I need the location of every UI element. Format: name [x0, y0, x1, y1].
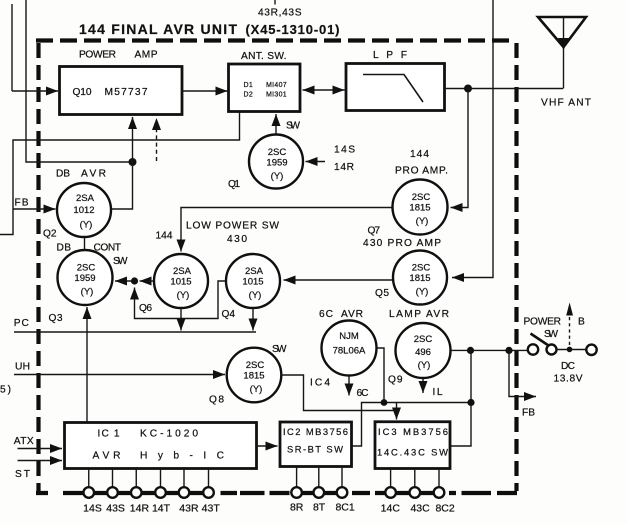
wire stub with arrow into Q1 right [306, 161, 326, 163]
svg-text:FB: FB [15, 198, 29, 209]
wire dashed B arrow [569, 315, 571, 345]
svg-text:Q8: Q8 [209, 395, 224, 406]
wire IC1 to IC2 arrow [257, 445, 278, 447]
transistor Q2 2SA1012 [57, 183, 111, 237]
wire pin stubs IC1 [89, 469, 209, 488]
svg-text:(X45-1310-01): (X45-1310-01) [246, 22, 340, 37]
wire FB arrow into Q2 [13, 208, 56, 210]
svg-text:(Y): (Y) [177, 290, 190, 301]
power amp box Q10 [60, 67, 183, 115]
wire A: input to power amp from top left [11, 4, 13, 91]
svg-text:LAMP AVR: LAMP AVR [389, 309, 449, 320]
svg-text:IC3 MB3756: IC3 MB3756 [378, 426, 448, 437]
hybrid IC1 KC-1020 box [65, 423, 257, 469]
wire PC line [14, 331, 256, 333]
svg-text:43C: 43C [410, 503, 430, 515]
svg-text:AMP: AMP [135, 50, 158, 61]
svg-text:SW: SW [544, 329, 558, 340]
switch IC2 MB3756 box [280, 422, 352, 467]
svg-text:2SC: 2SC [414, 334, 433, 345]
svg-text:1815: 1815 [243, 371, 264, 382]
svg-text:43T: 43T [202, 503, 221, 515]
wire arrow from Q6 into junction [140, 280, 155, 282]
node junction dot3 [467, 399, 474, 406]
svg-text:NJM: NJM [339, 331, 359, 342]
svg-text:B: B [578, 317, 585, 328]
svg-text:14T: 14T [152, 503, 171, 515]
svg-text:D1: D1 [244, 82, 254, 89]
svg-text:144 FINAL AVR UNIT: 144 FINAL AVR UNIT [79, 21, 237, 37]
svg-text:6C: 6C [319, 309, 333, 320]
svg-text:POWER: POWER [524, 317, 562, 328]
connector pin 8C1 [337, 487, 348, 498]
wire Q8 output to IC3 feed [282, 375, 397, 411]
wire up-arrow into junction from below, zigzag from Q4 left [135, 281, 227, 319]
LPF response curve [363, 75, 423, 103]
wire junction down to Q7 [451, 89, 469, 208]
svg-text:144: 144 [156, 231, 173, 242]
wire IC4 right bracket to rail [377, 348, 385, 403]
node junction dot1 [467, 347, 474, 354]
svg-text:D2: D2 [244, 92, 254, 99]
wire ATX arrow into IC1 [18, 448, 63, 450]
svg-text:M57737: M57737 [105, 87, 148, 98]
svg-text:496: 496 [415, 347, 431, 358]
wire UH line arrow into Q8 [14, 374, 225, 376]
svg-text:SW: SW [286, 121, 300, 132]
wire dot1 down through dot3 to IC3 right [450, 350, 471, 446]
svg-text:DB: DB [57, 243, 72, 254]
transistor Q5 2SC1815 [393, 251, 447, 305]
svg-text:Q4: Q4 [222, 309, 236, 320]
svg-text:ANT. SW.: ANT. SW. [241, 51, 287, 62]
wire Q9 down arrow IL [422, 378, 424, 393]
LPF box [346, 64, 445, 111]
connector pin 43R [179, 487, 190, 498]
transistor Q1 2SC1959 [249, 135, 303, 189]
wire: solid arrow into power amp bottom [132, 117, 134, 162]
svg-text:IC2 MB3756: IC2 MB3756 [283, 426, 348, 437]
svg-text:PRO AMP.: PRO AMP. [395, 166, 448, 177]
wire: dashed arrow into power amp bottom [156, 118, 158, 161]
svg-text:FB: FB [522, 408, 535, 419]
connector pin 43T [203, 487, 214, 498]
wire Q2 to Q3 [84, 237, 86, 251]
svg-text:ATX: ATX [14, 436, 34, 447]
wire B: from top edge to junction [26, 0, 131, 162]
svg-text:43S: 43S [106, 503, 125, 515]
svg-text:PC: PC [14, 318, 29, 329]
svg-text:1015: 1015 [170, 277, 191, 288]
svg-text:2SC: 2SC [268, 147, 287, 158]
power switch terminals and lever [528, 344, 538, 354]
svg-text:430: 430 [227, 234, 247, 245]
svg-text:2SC: 2SC [77, 263, 96, 274]
svg-text:(Y): (Y) [81, 287, 94, 298]
svg-text:Q3: Q3 [49, 313, 63, 324]
connector pin 8C2 [434, 487, 445, 498]
svg-text:2SA: 2SA [245, 266, 264, 277]
svg-text:14C: 14C [381, 503, 401, 515]
wire low power sw bracket: down-arrow into Q6, line to Q7 [181, 208, 393, 252]
svg-text:14S: 14S [334, 145, 355, 156]
connector pin 43C [410, 487, 421, 498]
svg-text:43R: 43R [179, 503, 199, 515]
svg-text:(Y): (Y) [80, 220, 93, 231]
svg-text:13.8V: 13.8V [554, 374, 583, 385]
svg-text:SW: SW [272, 344, 287, 355]
svg-text:Q7: Q7 [368, 226, 381, 237]
ant sw box D1 D2 [229, 64, 301, 112]
antenna symbol [538, 17, 586, 89]
connector pin 14C [385, 487, 396, 498]
svg-text:6C: 6C [357, 388, 369, 399]
wire Q6 bottom arrow into PC line [180, 308, 182, 331]
unit border dashed frame (left) [36, 43, 40, 493]
svg-text:(Y): (Y) [271, 171, 284, 182]
svg-text:14R: 14R [334, 162, 354, 173]
svg-text:(Y): (Y) [418, 360, 431, 371]
svg-text:AVR: AVR [81, 169, 106, 180]
wire FB output with arrow [509, 350, 536, 396]
wire B rail: IC2 to rail corner and to dot3 [352, 403, 472, 447]
svg-text:1959: 1959 [74, 273, 95, 284]
wire Q3 drive from IC1 top [86, 307, 88, 423]
svg-text:43R,43S: 43R,43S [258, 8, 302, 19]
wire arrow into Q3 right from junction [115, 280, 135, 282]
transistor Q3 2SC1959 [58, 250, 113, 305]
svg-text:5): 5) [0, 385, 11, 396]
svg-text:(Y): (Y) [249, 290, 262, 301]
wire ant.sw to lpf (double arrow) [303, 89, 345, 91]
svg-text:DC: DC [561, 361, 575, 372]
svg-text:1815: 1815 [409, 203, 430, 214]
wire lpf output to junction [445, 88, 469, 90]
svg-text:8C2: 8C2 [435, 503, 454, 515]
svg-text:SR-BT SW: SR-BT SW [287, 444, 343, 455]
svg-text:DB: DB [56, 169, 70, 180]
svg-text:MI301: MI301 [266, 92, 287, 99]
wire pin stubs IC3 [391, 469, 439, 488]
wire Q4 bottom arrow into PC line [252, 308, 254, 331]
svg-text:(Y): (Y) [416, 216, 429, 227]
node junction dot2 (FB tap) [505, 347, 512, 354]
wire rail stub down into IC3 top [396, 403, 398, 420]
wire IC4 down arrow 6C [348, 376, 350, 396]
wire Q1 up into ant.sw [275, 114, 277, 135]
svg-text:2SA: 2SA [76, 193, 95, 204]
svg-text:2SC: 2SC [412, 192, 431, 203]
svg-text:IC 1: IC 1 [98, 429, 120, 440]
wire from Q5 left with arrow into Q4 right [284, 279, 393, 281]
junction dot B [129, 158, 137, 166]
wire from top edge down to Q5 (long vertical) [452, 0, 493, 278]
svg-text:MI407: MI407 [266, 82, 287, 89]
wire C: ant.sw bottom feedback path to left edge and Q2 [0, 113, 240, 235]
connector pin 14R [131, 487, 142, 498]
svg-text:AVR: AVR [341, 309, 363, 320]
svg-text:SW: SW [113, 256, 128, 267]
svg-text:1959: 1959 [266, 158, 287, 169]
node junction right of Q3 [131, 277, 138, 284]
svg-text:IL: IL [433, 387, 443, 398]
svg-text:1015: 1015 [242, 277, 263, 288]
svg-text:POWER: POWER [79, 50, 116, 61]
unit border dashed frame (right) [514, 43, 518, 491]
svg-text:Q10: Q10 [73, 87, 92, 98]
connector pin 8R [291, 487, 302, 498]
connector pin 14S [83, 487, 94, 498]
node junction at lpf output [464, 85, 472, 93]
transistor Q8 2SC1815 [227, 348, 282, 403]
svg-text:Q1: Q1 [228, 179, 240, 190]
connector pin 8T [314, 487, 325, 498]
svg-text:8C1: 8C1 [335, 502, 354, 514]
pin labels row [83, 502, 455, 515]
svg-text:Q5: Q5 [375, 288, 389, 299]
unit border dashed frame (bottom, segmented around connector pins) [36, 491, 517, 495]
svg-text:8R: 8R [290, 502, 304, 514]
svg-text:8T: 8T [313, 502, 326, 514]
svg-text:Q9: Q9 [388, 375, 403, 386]
svg-text:430 PRO AMP: 430 PRO AMP [363, 238, 441, 249]
svg-text:2SC: 2SC [246, 360, 265, 371]
svg-text:14S: 14S [83, 503, 102, 515]
wire pin stubs IC2 [297, 467, 342, 488]
svg-text:2SA: 2SA [173, 266, 192, 277]
wire 43R,43S stub from top edge [274, 0, 276, 5]
wire: junction down to Q2 right side [111, 162, 133, 209]
svg-text:Q2: Q2 [43, 229, 57, 240]
regulator IC4 NJM78L06A [322, 321, 377, 376]
svg-text:1815: 1815 [409, 273, 430, 284]
svg-text:(Y): (Y) [416, 287, 429, 298]
svg-text:H y b - I C: H y b - I C [140, 451, 224, 462]
svg-text:L P F: L P F [373, 50, 407, 61]
connector pin 14T [155, 487, 166, 498]
wire junction to antenna [468, 88, 563, 90]
svg-text:AVR: AVR [93, 451, 121, 462]
node rail dot at IC4 feed [381, 399, 388, 406]
transistor Q7 2SC1815 [393, 180, 448, 235]
wire Q9 output to switch [451, 349, 529, 351]
svg-text:Q6: Q6 [139, 303, 152, 314]
wire ST arrow into IC1 [18, 460, 63, 462]
transistor Q4 2SA1015 [226, 254, 280, 308]
svg-text:1012: 1012 [73, 205, 94, 216]
node junction dot4 [567, 347, 573, 353]
svg-text:(Y): (Y) [250, 384, 263, 395]
lamp avr Q9 2SC496 [396, 323, 451, 378]
switch IC3 MB3756 box [375, 422, 450, 469]
unit border dashed frame (top) [36, 38, 516, 42]
svg-text:VHF ANT: VHF ANT [541, 98, 591, 109]
svg-text:2SC: 2SC [412, 263, 431, 274]
connector pin 43S [107, 487, 118, 498]
wire power amp to ant.sw [182, 90, 228, 92]
svg-text:LOW POWER SW: LOW POWER SW [186, 221, 279, 232]
svg-text:14R: 14R [130, 503, 150, 515]
svg-text:UH: UH [15, 362, 30, 373]
svg-text:144: 144 [410, 149, 429, 160]
transistor Q6 2SA1015 [154, 254, 208, 308]
svg-text:78L06A: 78L06A [333, 346, 366, 357]
